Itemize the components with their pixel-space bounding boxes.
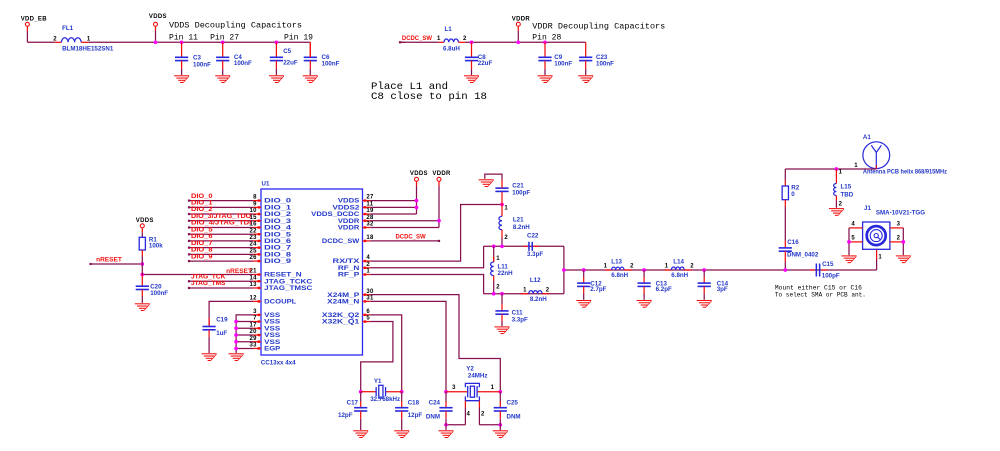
svg-text:3: 3: [897, 222, 901, 228]
svg-text:DCDC_SW: DCDC_SW: [402, 35, 432, 42]
svg-text:C17: C17: [347, 400, 359, 407]
svg-text:U1: U1: [262, 180, 270, 187]
svg-text:27: 27: [366, 195, 374, 201]
svg-text:22uF: 22uF: [478, 60, 493, 67]
svg-text:DCDC_SW: DCDC_SW: [396, 233, 426, 240]
svg-text:2.7pF: 2.7pF: [590, 286, 606, 293]
svg-text:1: 1: [523, 288, 527, 294]
svg-text:4: 4: [467, 412, 471, 418]
svg-text:C22: C22: [527, 233, 539, 240]
svg-text:32: 32: [366, 222, 374, 228]
svg-text:24MHz: 24MHz: [468, 373, 488, 380]
svg-text:JTAG_TMS: JTAG_TMS: [191, 280, 225, 287]
svg-text:2: 2: [690, 264, 694, 270]
svg-text:DCOUPL: DCOUPL: [264, 299, 296, 306]
svg-text:nRESET: nRESET: [96, 257, 122, 264]
svg-text:VDDR: VDDR: [512, 16, 531, 22]
svg-text:100nF: 100nF: [150, 290, 168, 297]
svg-text:C15: C15: [822, 261, 834, 268]
svg-text:12pF: 12pF: [408, 412, 423, 419]
svg-text:1: 1: [854, 163, 858, 169]
svg-text:2: 2: [630, 264, 634, 270]
svg-text:32.768kHz: 32.768kHz: [370, 396, 400, 403]
svg-text:6.2pF: 6.2pF: [656, 286, 672, 293]
svg-text:2: 2: [546, 288, 550, 294]
svg-text:DNM: DNM: [426, 414, 440, 421]
svg-text:Y1: Y1: [374, 378, 382, 385]
svg-text:2: 2: [839, 202, 843, 208]
svg-text:DNM_0402: DNM_0402: [787, 251, 819, 258]
svg-text:6.8uH: 6.8uH: [443, 45, 460, 52]
svg-text:EGP: EGP: [264, 346, 280, 353]
svg-text:100k: 100k: [149, 242, 163, 249]
svg-text:C8 close to pin 18: C8 close to pin 18: [371, 91, 487, 103]
svg-text:19: 19: [366, 208, 374, 214]
svg-text:JTAG_TMSC: JTAG_TMSC: [264, 285, 313, 292]
svg-text:C18: C18: [408, 400, 420, 407]
svg-text:X24M_N: X24M_N: [327, 299, 360, 306]
svg-text:7: 7: [253, 316, 257, 322]
svg-text:3: 3: [452, 385, 456, 391]
svg-text:1: 1: [665, 264, 669, 270]
svg-text:14: 14: [250, 275, 258, 281]
svg-text:VDDS: VDDS: [410, 171, 428, 177]
svg-text:100nF: 100nF: [322, 61, 340, 68]
svg-text:C16: C16: [787, 239, 799, 246]
svg-text:22: 22: [250, 228, 258, 234]
svg-text:1: 1: [366, 269, 370, 275]
svg-text:25: 25: [250, 248, 258, 254]
svg-text:VDDS: VDDS: [136, 218, 154, 224]
svg-text:DIO_9: DIO_9: [191, 253, 213, 260]
svg-text:DCDC_SW: DCDC_SW: [322, 238, 360, 245]
svg-text:1: 1: [437, 36, 441, 42]
svg-text:8: 8: [253, 195, 257, 201]
svg-text:12pF: 12pF: [338, 412, 353, 419]
svg-text:22nH: 22nH: [498, 270, 514, 277]
svg-text:Pin 28: Pin 28: [532, 34, 561, 43]
svg-text:1: 1: [878, 254, 882, 260]
svg-text:18: 18: [366, 235, 374, 241]
svg-text:4: 4: [851, 222, 855, 228]
svg-text:L12: L12: [530, 277, 541, 284]
svg-text:3pF: 3pF: [717, 286, 728, 293]
svg-text:CC13xx 4x4: CC13xx 4x4: [261, 359, 296, 366]
svg-text:VDDR: VDDR: [338, 225, 360, 232]
svg-text:29: 29: [250, 336, 258, 342]
svg-text:3: 3: [253, 309, 257, 315]
svg-text:Pin 19: Pin 19: [284, 33, 313, 42]
svg-text:4: 4: [366, 255, 370, 261]
svg-text:31: 31: [366, 296, 374, 302]
svg-text:6.8nH: 6.8nH: [671, 272, 688, 279]
svg-text:Pin 27: Pin 27: [210, 33, 239, 42]
svg-text:6.8nH: 6.8nH: [611, 272, 628, 279]
svg-text:33: 33: [250, 343, 258, 349]
svg-text:RF_P: RF_P: [338, 272, 359, 279]
svg-text:VDDS Decoupling Capacitors: VDDS Decoupling Capacitors: [169, 21, 302, 30]
svg-text:L13: L13: [611, 259, 622, 266]
svg-text:Pin 11: Pin 11: [169, 33, 198, 42]
svg-text:1: 1: [504, 206, 508, 212]
svg-text:24: 24: [250, 242, 258, 248]
svg-text:26: 26: [250, 255, 258, 261]
svg-text:VDDS: VDDS: [149, 14, 167, 20]
svg-text:2: 2: [481, 412, 485, 418]
svg-text:DIO_9: DIO_9: [264, 258, 292, 265]
svg-text:VDDR Decoupling Capacitors: VDDR Decoupling Capacitors: [532, 23, 665, 32]
svg-text:nRESET: nRESET: [226, 268, 252, 275]
svg-text:17: 17: [250, 322, 258, 328]
svg-text:J1: J1: [864, 205, 871, 212]
svg-text:100pF: 100pF: [512, 189, 530, 196]
svg-text:22uF: 22uF: [283, 59, 298, 66]
svg-text:100pF: 100pF: [822, 273, 840, 280]
svg-text:L15: L15: [841, 184, 852, 191]
svg-text:30: 30: [366, 289, 374, 295]
svg-text:C5: C5: [283, 48, 291, 55]
svg-text:3.3pF: 3.3pF: [527, 251, 543, 258]
svg-text:5: 5: [851, 236, 855, 242]
svg-text:3.3pF: 3.3pF: [512, 317, 528, 324]
svg-text:X32K_Q1: X32K_Q1: [322, 319, 360, 326]
svg-text:13: 13: [250, 282, 258, 288]
svg-text:11: 11: [366, 201, 373, 207]
svg-text:Mount either C15 or C16: Mount either C15 or C16: [775, 285, 862, 292]
svg-text:2: 2: [463, 36, 467, 42]
svg-text:VDDR: VDDR: [432, 171, 451, 177]
svg-text:8.2nH: 8.2nH: [513, 224, 530, 231]
svg-text:A1: A1: [863, 134, 871, 141]
svg-text:8.2nH: 8.2nH: [530, 296, 547, 303]
svg-text:C19: C19: [216, 317, 228, 324]
svg-text:C24: C24: [429, 400, 441, 407]
svg-text:100nF: 100nF: [234, 60, 252, 67]
svg-text:DNM: DNM: [507, 414, 521, 421]
svg-text:2: 2: [504, 235, 508, 241]
svg-text:6: 6: [366, 309, 370, 315]
svg-text:L21: L21: [513, 217, 524, 224]
svg-text:VDD_EB: VDD_EB: [21, 16, 48, 22]
svg-text:100nF: 100nF: [554, 61, 572, 68]
svg-text:1: 1: [491, 385, 495, 391]
svg-text:28: 28: [366, 215, 374, 221]
svg-text:Antenna PCB helix 868/915MHz: Antenna PCB helix 868/915MHz: [863, 169, 947, 176]
svg-text:1: 1: [496, 256, 500, 262]
svg-text:L14: L14: [673, 259, 684, 266]
svg-text:1uF: 1uF: [216, 330, 227, 337]
svg-text:BLM18HE152SN1: BLM18HE152SN1: [62, 46, 114, 53]
svg-text:1: 1: [839, 169, 843, 175]
svg-text:C25: C25: [507, 400, 519, 407]
svg-text:2: 2: [897, 236, 901, 242]
svg-text:2: 2: [366, 262, 370, 268]
svg-text:100nF: 100nF: [596, 61, 614, 68]
svg-text:To select SMA or PCB ant.: To select SMA or PCB ant.: [775, 292, 866, 299]
svg-text:23: 23: [250, 235, 258, 241]
svg-text:1: 1: [604, 264, 608, 270]
svg-text:100nF: 100nF: [193, 61, 211, 68]
svg-text:20: 20: [250, 329, 258, 335]
svg-text:12: 12: [250, 296, 258, 302]
svg-text:TBD: TBD: [841, 192, 854, 199]
svg-text:FL1: FL1: [62, 25, 74, 32]
svg-text:2: 2: [496, 284, 500, 290]
svg-text:SMA-10V21-TGG: SMA-10V21-TGG: [876, 210, 925, 217]
svg-text:5: 5: [366, 316, 370, 322]
svg-text:L1: L1: [445, 26, 453, 33]
svg-text:0: 0: [791, 191, 795, 198]
svg-text:C3: C3: [193, 54, 201, 61]
svg-text:9: 9: [253, 201, 257, 207]
svg-text:C11: C11: [512, 310, 524, 317]
